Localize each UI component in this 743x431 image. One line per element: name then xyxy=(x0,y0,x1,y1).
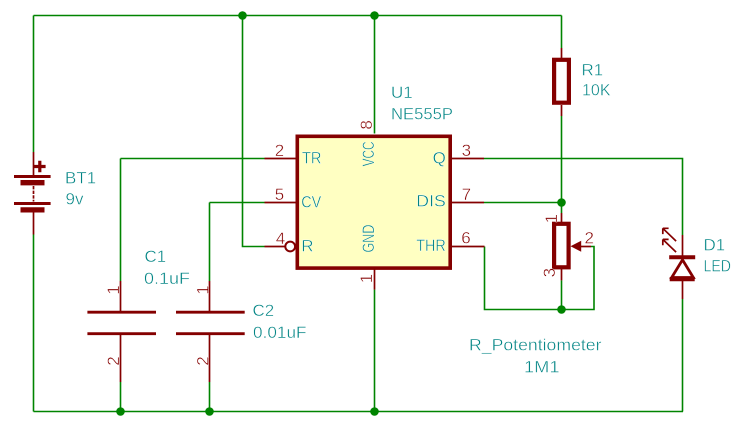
capacitor C2 pin 2 stub xyxy=(209,335,211,382)
svg-text:8: 8 xyxy=(357,120,376,129)
svg-text:R: R xyxy=(301,236,313,255)
capacitor C1 top plate xyxy=(87,311,156,314)
svg-text:0.1uF: 0.1uF xyxy=(144,269,190,288)
LED D1 triangle xyxy=(672,260,694,278)
wire CV net horizontal to pin 5 xyxy=(210,202,265,204)
battery BT1 pin + xyxy=(33,152,35,177)
svg-text:2: 2 xyxy=(193,356,212,365)
wire THR net pin 6 down and right xyxy=(485,247,562,310)
potentiometer RV body xyxy=(554,224,569,267)
svg-text:2: 2 xyxy=(585,228,594,247)
capacitor C1 bottom plate xyxy=(87,332,156,335)
wire C2 bottom to rail xyxy=(209,382,211,412)
svg-text:3: 3 xyxy=(462,141,471,160)
wire R1 bottom to DIS junction xyxy=(561,116,563,203)
svg-text:BT1: BT1 xyxy=(65,169,96,188)
svg-text:6: 6 xyxy=(461,229,470,248)
pin 4 R stub xyxy=(265,246,286,248)
resistor R1 pin 1 stub xyxy=(561,48,563,58)
LED D1 cathode bar xyxy=(669,255,695,259)
junction bottom rail / C2 xyxy=(205,407,214,416)
svg-text:D1: D1 xyxy=(704,236,726,255)
svg-text:VCC: VCC xyxy=(359,141,378,166)
svg-text:1: 1 xyxy=(193,285,212,294)
svg-text:CV: CV xyxy=(301,193,322,212)
LED D1 emission arrow 2 xyxy=(663,239,676,252)
resistor R1 pin 2 stub xyxy=(561,105,563,116)
junction top rail / VCC pin xyxy=(370,11,379,20)
wire VCC stub down to pin 8 xyxy=(374,16,376,134)
battery plus sign xyxy=(34,161,46,173)
wire pot pin 3 to junction xyxy=(561,280,563,309)
wire CV net vertical down to C2 xyxy=(209,203,211,282)
wire reset net: top rail down to pin 4 xyxy=(243,16,265,247)
svg-text:1: 1 xyxy=(357,274,376,283)
svg-text:2: 2 xyxy=(104,356,123,365)
battery dashed link xyxy=(33,186,35,202)
potentiometer wiper arrow xyxy=(571,241,582,252)
svg-text:NE555P: NE555P xyxy=(391,104,453,123)
svg-text:GND: GND xyxy=(359,225,378,253)
wire TR net horizontal to pin 2 xyxy=(121,158,265,160)
svg-text:1M1: 1M1 xyxy=(524,358,560,377)
svg-text:R_Potentiometer: R_Potentiometer xyxy=(469,336,602,355)
svg-text:LED: LED xyxy=(704,257,732,276)
svg-text:0.01uF: 0.01uF xyxy=(253,323,307,342)
wire left rail (battery + to top) xyxy=(33,16,35,153)
junction bottom rail / GND pin xyxy=(370,407,379,416)
wire left rail (battery - to bottom) xyxy=(33,235,35,412)
svg-text:1: 1 xyxy=(104,285,123,294)
battery BT1 symbol xyxy=(14,161,51,210)
resistor R1 body xyxy=(554,60,569,103)
pin 2 TR stub xyxy=(265,158,296,160)
wire TR net vertical down to C1 xyxy=(120,159,122,282)
svg-text:7: 7 xyxy=(462,185,471,204)
wire GND pin 1 to rail xyxy=(374,290,376,412)
junction DIS / R1 / pot xyxy=(557,198,566,207)
svg-text:DIS: DIS xyxy=(416,192,446,211)
potentiometer pin 3 stub xyxy=(561,269,563,280)
svg-text:5: 5 xyxy=(275,185,284,204)
capacitor C1 pin 1 stub xyxy=(120,281,122,311)
svg-text:TR: TR xyxy=(302,149,322,168)
wire bottom rail GND net xyxy=(34,411,684,413)
capacitor C1 pin 2 stub xyxy=(120,335,122,382)
svg-text:Q: Q xyxy=(433,149,446,168)
svg-text:C1: C1 xyxy=(145,247,167,266)
pin 5 CV stub xyxy=(265,202,296,204)
svg-text:4: 4 xyxy=(276,229,285,248)
potentiometer pin 1 stub xyxy=(561,213,563,222)
svg-text:1: 1 xyxy=(542,214,561,223)
battery BT1 pin - xyxy=(33,212,35,235)
svg-text:THR: THR xyxy=(416,236,446,255)
wire top rail to R1 xyxy=(561,16,563,49)
battery cell 1 long plate xyxy=(14,175,51,178)
junction top rail / reset net xyxy=(238,11,247,20)
capacitor C2 top plate xyxy=(176,311,245,314)
LED D1 emission arrow 1 xyxy=(663,228,676,241)
svg-text:R1: R1 xyxy=(582,61,604,80)
LED D1 anode base bar xyxy=(670,277,695,281)
wire DIS net pin 7 to junction xyxy=(484,202,562,204)
pin 6 THR stub xyxy=(452,246,485,248)
battery cell 1 short plate xyxy=(21,180,45,185)
pin 3 Q stub xyxy=(452,158,484,160)
LED D1 anode pin stub xyxy=(682,235,684,256)
svg-text:3: 3 xyxy=(540,268,559,277)
wire pot wiper net xyxy=(562,247,595,310)
pin 7 DIS stub xyxy=(452,202,484,204)
potentiometer pin 2 wiper stub xyxy=(581,246,591,248)
svg-text:2: 2 xyxy=(275,141,284,160)
op-amp U1 body (NE555P timer) xyxy=(297,136,450,268)
wire Q output net to LED xyxy=(484,159,683,236)
LED D1 cathode pin stub xyxy=(682,281,684,299)
wire DIS junction to pot pin 1 xyxy=(561,203,563,214)
svg-text:U1: U1 xyxy=(391,83,413,102)
junction bottom rail / C1 xyxy=(116,407,125,416)
capacitor C2 pin 1 stub xyxy=(209,281,211,311)
wire top rail VCC net xyxy=(34,15,562,17)
svg-text:10K: 10K xyxy=(582,81,611,100)
wire LED cathode to rail xyxy=(682,299,684,412)
svg-text:C2: C2 xyxy=(253,301,275,320)
battery cell 2 long plate xyxy=(14,202,51,205)
capacitor C2 bottom plate xyxy=(176,332,245,335)
pin 1 GND stub xyxy=(374,270,376,290)
junction THR / wiper / pot pin 3 xyxy=(557,305,566,314)
svg-text:9v: 9v xyxy=(66,190,84,209)
battery cell 2 short plate xyxy=(21,207,45,212)
pin 4 inversion bubble xyxy=(285,242,295,252)
wire C1 bottom to rail xyxy=(120,382,122,412)
